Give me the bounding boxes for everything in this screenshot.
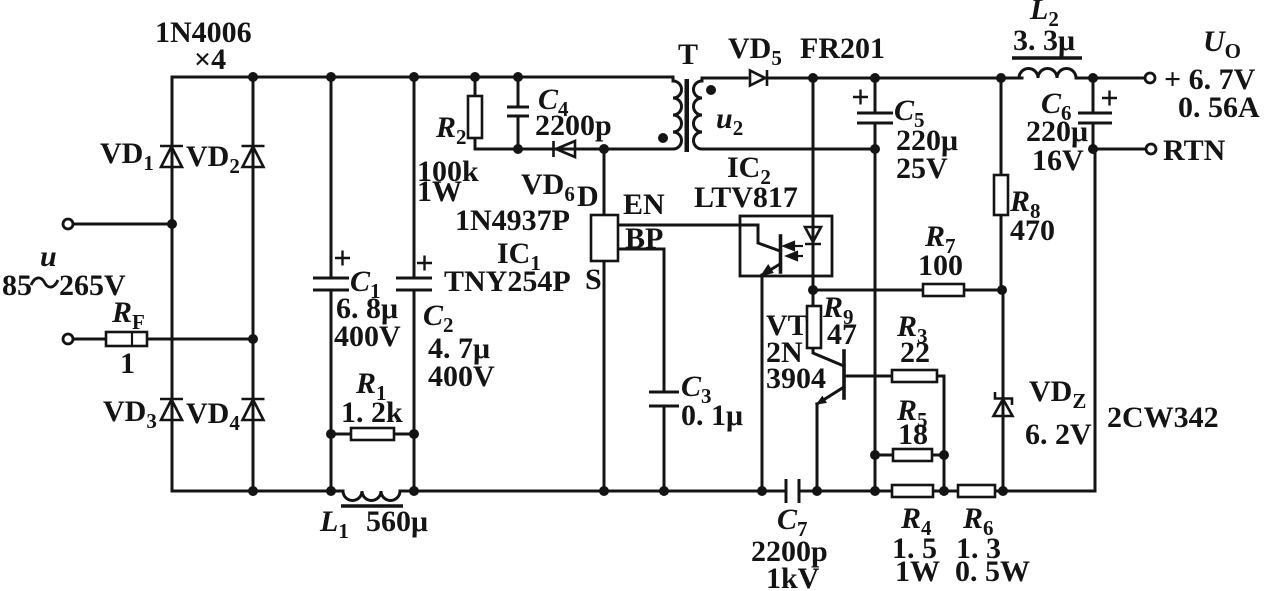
svg-text:BP: BP — [625, 222, 663, 255]
svg-text:400V: 400V — [428, 360, 495, 393]
svg-text:u: u — [40, 240, 57, 273]
svg-text:S: S — [585, 263, 602, 296]
svg-text:16V: 16V — [1032, 144, 1084, 177]
svg-text:2CW342: 2CW342 — [1107, 401, 1219, 434]
svg-text:25V: 25V — [896, 152, 948, 185]
svg-text:400V: 400V — [334, 320, 401, 353]
svg-text:0. 56A: 0. 56A — [1178, 91, 1260, 124]
svg-text:100: 100 — [918, 249, 963, 282]
svg-text:T: T — [678, 38, 698, 71]
svg-text:3904: 3904 — [766, 362, 826, 395]
svg-text:1kV: 1kV — [766, 562, 820, 591]
svg-text:TNY254P: TNY254P — [444, 265, 571, 298]
svg-text:LTV817: LTV817 — [694, 181, 798, 214]
svg-text:47: 47 — [827, 318, 857, 351]
svg-text:3. 3μ: 3. 3μ — [1013, 24, 1075, 57]
svg-text:D: D — [577, 180, 599, 213]
svg-text:22: 22 — [900, 336, 930, 369]
svg-text:0. 1μ: 0. 1μ — [681, 399, 743, 432]
svg-text:1: 1 — [120, 347, 135, 380]
svg-text:2200p: 2200p — [535, 109, 612, 142]
svg-text:560μ: 560μ — [366, 505, 428, 538]
svg-text:FR201: FR201 — [800, 32, 885, 65]
svg-text:0. 5W: 0. 5W — [955, 555, 1030, 588]
svg-text:EN: EN — [623, 188, 665, 221]
svg-text:RTN: RTN — [1163, 134, 1226, 167]
svg-text:×4: ×4 — [194, 43, 226, 76]
svg-text:1. 2k: 1. 2k — [341, 396, 403, 429]
svg-text:85: 85 — [2, 269, 32, 302]
svg-text:6. 2V: 6. 2V — [1025, 418, 1092, 451]
svg-text:470: 470 — [1010, 214, 1055, 247]
svg-text:1W: 1W — [895, 555, 940, 588]
svg-text:1N4937P: 1N4937P — [455, 204, 570, 237]
svg-text:18: 18 — [898, 418, 928, 451]
